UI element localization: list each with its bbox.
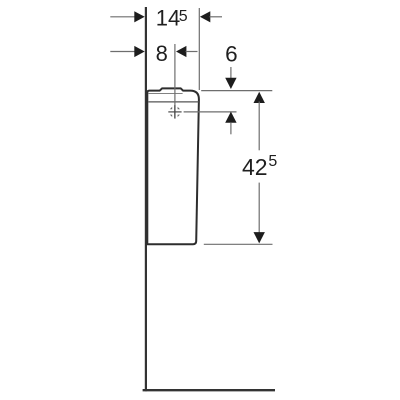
svg-text:6: 6: [225, 41, 238, 66]
svg-text:5: 5: [179, 8, 188, 25]
svg-text:5: 5: [268, 153, 277, 170]
svg-text:8: 8: [156, 41, 168, 66]
svg-text:42: 42: [242, 154, 268, 180]
svg-text:14: 14: [156, 6, 180, 31]
